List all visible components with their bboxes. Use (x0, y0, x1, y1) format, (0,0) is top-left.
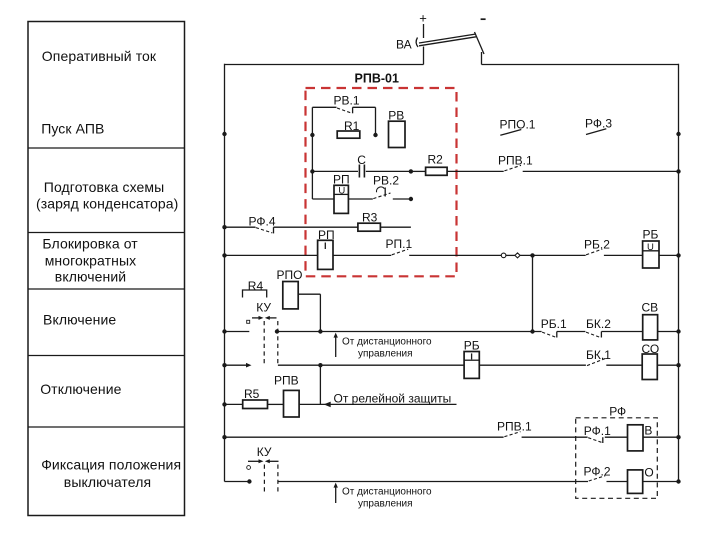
svg-text:Отключение: Отключение (40, 381, 121, 397)
svg-text:От дистанционного: От дистанционного (342, 337, 432, 348)
node plus terminal (419, 10, 427, 38)
svg-text:От релейной защиты: От релейной защиты (334, 391, 452, 405)
svg-text:РП.1: РП.1 (386, 237, 413, 251)
contact RB.1 (541, 317, 567, 338)
svg-text:управления: управления (358, 499, 413, 510)
svg-text:Оперативный ток: Оперативный ток (42, 48, 157, 64)
svg-text:РБ.2: РБ.2 (584, 237, 610, 251)
contact RPO.1 (floating) (500, 117, 536, 135)
resistor R4 (bracket) (243, 279, 267, 297)
svg-text:РВ.2: РВ.2 (373, 174, 399, 188)
relay coil RP (I) (222, 228, 391, 269)
contact RF.1 (584, 424, 628, 443)
contact RF.3 (floating) (585, 116, 681, 136)
control key KU (top) (247, 301, 278, 365)
svg-text:РПО.1: РПО.1 (500, 117, 536, 131)
relay coil RB (U) right (643, 228, 681, 269)
wire vertical from SO line to Otklyuchenie line (319, 365, 321, 404)
breaker close coil V (628, 423, 681, 451)
svg-text:РБ: РБ (464, 338, 480, 352)
wire right bus (678, 64, 680, 482)
svg-text:R3: R3 (362, 210, 378, 224)
contact RF.4 (222, 215, 358, 234)
contact RB.2 (584, 237, 643, 255)
svg-text:РФ.4: РФ.4 (249, 215, 276, 229)
svg-text:U: U (647, 242, 654, 253)
relay coil RPV (268, 374, 330, 418)
svg-text:управления: управления (358, 349, 413, 360)
contact RV.1 with wire branch (310, 94, 378, 138)
arrow from relay protection (324, 391, 457, 407)
svg-text:РПВ.1: РПВ.1 (498, 154, 533, 168)
arrow from remote control (bottom) (334, 483, 433, 510)
contactor coil SV (642, 301, 659, 340)
svg-text:R5: R5 (244, 387, 260, 401)
svg-text:КУ: КУ (256, 301, 271, 315)
contact BK.2 (586, 317, 611, 338)
svg-text:БК.1: БК.1 (586, 348, 611, 362)
SO line (RB coil row) (222, 363, 680, 368)
breaker trip coil O (628, 466, 681, 494)
svg-text:СВ: СВ (642, 301, 659, 315)
contact RF.2 (584, 465, 628, 482)
svg-text:РФ.2: РФ.2 (584, 465, 611, 479)
svg-text:БК.2: БК.2 (586, 317, 611, 331)
svg-text:РП: РП (333, 173, 350, 187)
resistor R5 (222, 387, 267, 409)
resistor R1 (337, 119, 360, 138)
svg-text:РБ: РБ (643, 228, 659, 242)
svg-text:В: В (644, 423, 652, 437)
node on left bus (222, 132, 226, 136)
svg-text:+: + (419, 10, 427, 25)
relay coil RV (388, 108, 405, 147)
relay coil RPO with drop wire (277, 268, 323, 334)
svg-text:R4: R4 (248, 279, 264, 293)
svg-text:РФ: РФ (609, 405, 626, 419)
svg-text:РФ.3: РФ.3 (585, 116, 612, 130)
RPV-01 red dashed enclosure (306, 72, 457, 277)
capacitor C (310, 153, 413, 178)
svg-text:Пуск АПВ: Пуск АПВ (41, 121, 104, 137)
svg-text:Включение: Включение (43, 312, 116, 328)
node minus terminal (481, 18, 486, 20)
contact BK.1 (586, 348, 611, 366)
O line (Fiksatsiya row) (225, 479, 589, 483)
svg-text:U: U (338, 185, 345, 196)
control key KU (bottom) (247, 445, 279, 493)
svg-text:многократных: многократных (45, 253, 137, 269)
relay coil RB (left) (464, 338, 480, 378)
relay coil RP (U) with contact RV.2 branch (312, 173, 372, 214)
svg-text:РВ: РВ (388, 108, 404, 122)
svg-text:Блокировка от: Блокировка от (42, 236, 138, 252)
svg-text:РВ.1: РВ.1 (334, 94, 360, 108)
wire left bus (224, 64, 226, 482)
svg-text:От дистанционного: От дистанционного (342, 487, 432, 498)
svg-text:R2: R2 (428, 153, 444, 167)
switch BA (battery knife switch) (396, 32, 484, 65)
V line (breaker close coil row) (222, 435, 503, 439)
table: function rows (28, 22, 185, 516)
svg-text:РПО: РПО (277, 268, 303, 282)
contact RP.1 (386, 237, 502, 255)
svg-text:включений: включений (55, 268, 126, 284)
contact RV.2 (time-delay) (373, 174, 413, 202)
wire top right (482, 64, 679, 66)
wire inner left vertical (311, 107, 313, 199)
connector circle and diamond on RP.1 line (501, 253, 585, 258)
svg-text:выключателя: выключателя (64, 474, 151, 490)
contact RPV.1 (top) (498, 154, 681, 174)
contactor coil SO (642, 342, 660, 380)
svg-text:РПВ: РПВ (274, 374, 299, 388)
wire vertical from RP.1 line to Vklyuchenie line (530, 255, 534, 333)
svg-text:КУ: КУ (257, 445, 272, 459)
svg-text:РПВ.1: РПВ.1 (497, 420, 532, 434)
resistor R3 (358, 210, 411, 231)
svg-text:Подготовка схемы: Подготовка схемы (44, 179, 165, 195)
svg-text:(заряд конденсатора): (заряд конденсатора) (36, 196, 178, 212)
svg-text:Фиксация положения: Фиксация положения (41, 457, 181, 473)
RF dashed enclosure (576, 405, 658, 499)
svg-text:ВА: ВА (396, 38, 412, 52)
svg-text:РБ.1: РБ.1 (541, 317, 567, 331)
svg-text:РФ.1: РФ.1 (584, 424, 611, 438)
contact RPV.1 (bottom) (497, 420, 588, 438)
Vklyuchenie line (222, 329, 680, 333)
resistor R2 (411, 153, 504, 176)
svg-text:РПВ-01: РПВ-01 (355, 72, 399, 86)
wire top left to bus (225, 64, 424, 66)
svg-text:О: О (644, 466, 653, 480)
arrow from remote control (Vklyuchenie) (334, 333, 433, 360)
